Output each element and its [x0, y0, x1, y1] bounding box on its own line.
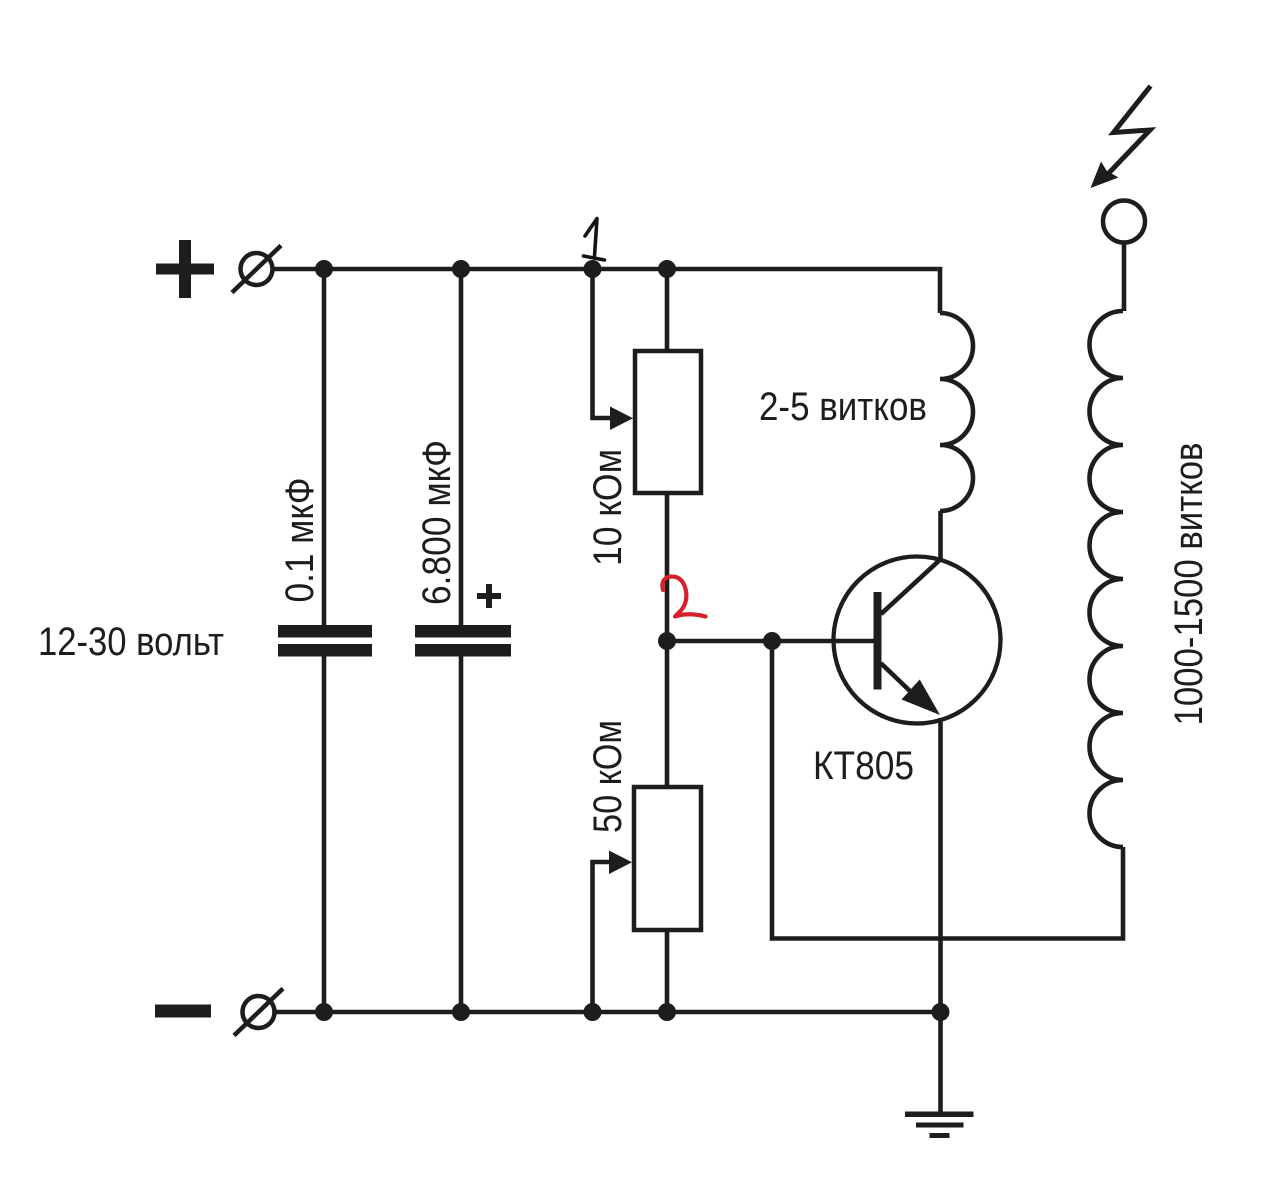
svg-text:0.1 мкФ: 0.1 мкФ — [278, 478, 322, 603]
svg-text:6.800 мкФ: 6.800 мкФ — [415, 440, 459, 605]
svg-text:10 кОм: 10 кОм — [586, 449, 630, 566]
svg-text:КТ805: КТ805 — [813, 744, 914, 788]
svg-text:2-5 витков: 2-5 витков — [759, 385, 927, 429]
svg-text:1000-1500 витков: 1000-1500 витков — [1167, 443, 1211, 726]
svg-text:12-30 вольт: 12-30 вольт — [38, 620, 224, 664]
svg-text:50 кОм: 50 кОм — [586, 720, 630, 833]
